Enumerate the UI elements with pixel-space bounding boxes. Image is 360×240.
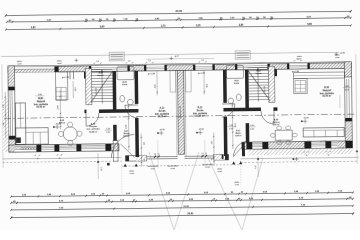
svg-text:10,80 m²: 10,80 m² (89, 130, 98, 133)
svg-text:lam. parketta: lam. parketta (320, 92, 335, 95)
svg-text:10,00: 10,00 (183, 206, 189, 208)
svg-text:5,0: 5,0 (205, 153, 207, 155)
svg-text:2,10: 2,10 (106, 132, 110, 134)
svg-text:5,0: 5,0 (201, 60, 203, 62)
svg-text:lam. parketta: lam. parketta (34, 103, 49, 106)
svg-text:Szoba: Szoba (159, 111, 167, 113)
svg-text:B,12: B,12 (197, 107, 203, 109)
svg-text:lam. parketta: lam. parketta (193, 112, 208, 115)
svg-text:5,0: 5,0 (296, 58, 298, 60)
svg-text:2,75: 2,75 (161, 25, 166, 28)
svg-text:3,85: 3,85 (239, 24, 244, 27)
svg-text:2,30: 2,30 (3, 104, 5, 108)
svg-text:24,40: 24,40 (187, 212, 194, 215)
svg-text:fürdő: fürdő (234, 83, 240, 85)
svg-text:szint: szint (235, 183, 240, 186)
svg-text:gm 1,50: gm 1,50 (320, 141, 326, 143)
svg-text:5,85: 5,85 (307, 23, 312, 26)
svg-text:Porotherm 30: Porotherm 30 (179, 106, 182, 118)
svg-text:szint: szint (170, 167, 175, 170)
svg-text:lam. parketta: lam. parketta (155, 112, 170, 115)
svg-text:30: 30 (59, 158, 61, 160)
svg-text:gm 2,90: gm 2,90 (148, 73, 155, 75)
svg-text:lam. parketta: lam. parketta (87, 128, 101, 131)
svg-text:16x17,6: 16x17,6 (263, 86, 265, 92)
svg-text:gm 1,50: gm 1,50 (304, 141, 310, 143)
svg-text:30: 30 (306, 155, 308, 157)
svg-text:szint: szint (130, 172, 135, 175)
svg-text:szint: szint (205, 165, 210, 168)
svg-text:lépcső: lépcső (98, 75, 105, 77)
svg-text:fürdő: fürdő (122, 84, 128, 86)
svg-text:2,30: 2,30 (142, 142, 144, 145)
svg-text:1,90: 1,90 (100, 167, 102, 170)
svg-text:Étkező: Étkező (59, 121, 66, 124)
svg-text:Nappali: Nappali (37, 101, 46, 103)
svg-text:2,05: 2,05 (205, 84, 207, 88)
svg-text:3,08 m²: 3,08 m² (123, 134, 130, 137)
svg-text:90: 90 (211, 158, 213, 160)
svg-text:5,0: 5,0 (96, 61, 98, 63)
svg-text:24,40: 24,40 (175, 9, 182, 13)
svg-text:3,85: 3,85 (31, 26, 36, 29)
svg-text:Nappali: Nappali (323, 90, 332, 92)
svg-text:2,05: 2,05 (155, 84, 157, 88)
svg-text:5,0: 5,0 (148, 60, 150, 62)
svg-text:90: 90 (142, 159, 144, 161)
svg-text:2,10: 2,10 (229, 128, 233, 130)
svg-text:16x17,6: 16x17,6 (96, 88, 98, 94)
svg-text:gm 2,90: gm 2,90 (198, 72, 205, 74)
svg-text:A,12: A,12 (159, 107, 165, 110)
svg-text:szint: szint (218, 170, 223, 173)
svg-text:3,06 m²: 3,06 m² (273, 123, 281, 126)
svg-text:szint: szint (335, 56, 340, 59)
svg-text:lépcső: lépcső (255, 73, 262, 75)
svg-text:szint: szint (57, 62, 62, 65)
svg-text:1,90: 1,90 (255, 165, 257, 168)
svg-text:2,30: 2,30 (211, 141, 213, 144)
svg-text:szint: szint (17, 62, 22, 65)
svg-text:2,05: 2,05 (74, 87, 76, 91)
svg-text:3,08 m²: 3,08 m² (235, 134, 242, 137)
svg-text:Szoba: Szoba (197, 110, 205, 112)
svg-text:5,0: 5,0 (157, 154, 159, 156)
svg-text:2,20: 2,20 (196, 24, 201, 27)
svg-text:30: 30 (37, 158, 39, 160)
svg-text:1,40: 1,40 (2, 122, 5, 126)
svg-text:5,0: 5,0 (154, 154, 156, 156)
svg-text:5,90: 5,90 (100, 25, 105, 28)
svg-text:B,06: B,06 (324, 87, 330, 89)
svg-text:gm 2,90: gm 2,90 (292, 71, 299, 73)
svg-text:30: 30 (328, 154, 330, 156)
svg-text:2,10: 2,10 (250, 129, 254, 131)
svg-text:5,0: 5,0 (201, 153, 203, 155)
svg-text:szint: szint (150, 167, 155, 170)
svg-text:gm 2,90: gm 2,90 (62, 77, 69, 79)
svg-text:5,0: 5,0 (128, 60, 130, 62)
